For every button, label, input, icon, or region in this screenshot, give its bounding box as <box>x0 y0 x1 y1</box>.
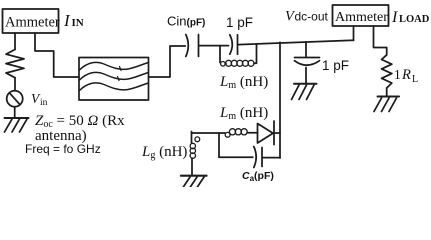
ground (Lg) <box>181 175 207 177</box>
ammeter box M2 (output) <box>333 5 389 26</box>
filter wavy line 2 <box>80 72 149 80</box>
capacitor 1pF shunt curved plate <box>295 61 320 65</box>
wire diode to vertical <box>274 132 280 134</box>
capacitor Cin straight plate <box>198 35 200 57</box>
capacitor Cin curved plate <box>186 35 189 57</box>
diode D1 <box>258 124 274 144</box>
wire M2 left lead to rail <box>353 26 355 40</box>
filter box (band-pass filter) <box>79 58 149 101</box>
wire source to ground <box>14 107 16 118</box>
ground (shunt cap) <box>294 83 317 85</box>
svg-text:Ca(pF): Ca(pF) <box>242 170 274 183</box>
node T junction to Ca loop <box>218 133 220 157</box>
wire M1 right lead to filter <box>35 33 79 77</box>
resistor RL <box>382 55 392 88</box>
svg-text:Freq = fo GHz: Freq = fo GHz <box>25 142 101 156</box>
wire top rail <box>238 40 354 44</box>
svg-text:Lg (nH): Lg (nH) <box>141 144 187 161</box>
wire Lg to ground <box>191 158 193 174</box>
capacitor 1pF shunt straight plate <box>295 57 320 59</box>
inductor Lm2 terminal circle <box>225 132 230 137</box>
inductor Lg coil <box>190 143 195 148</box>
filter wavy line 3 <box>80 83 149 91</box>
inductor Lm (tank) coil <box>224 63 227 65</box>
wire RL to ground <box>386 88 388 96</box>
filter wavy line 1 tick <box>120 67 122 71</box>
svg-text:IN: IN <box>72 17 84 29</box>
inductor Lm2 coil <box>229 129 235 135</box>
svg-text:I: I <box>391 9 398 26</box>
filter wavy line 1 <box>80 62 149 70</box>
wire Ca loop bottom left <box>219 156 253 158</box>
capacitor C 1pF series curved plate <box>230 35 233 54</box>
svg-text:I: I <box>63 11 71 30</box>
diode D1 cathode bar <box>273 121 275 145</box>
wire Lg top <box>191 132 193 144</box>
capacitor C 1pF series straight plate <box>237 35 239 54</box>
svg-text:Ammeter: Ammeter <box>335 10 388 25</box>
wire Cin to 1pF <box>199 45 229 47</box>
svg-text:R: R <box>401 67 411 83</box>
capacitor Ca curved plate <box>254 147 256 168</box>
wire M1 left lead <box>14 33 16 50</box>
wire resistor to source <box>14 78 16 91</box>
wire to Lm2 <box>219 132 225 134</box>
wire filter to Cin <box>149 46 186 77</box>
filter wavy line 2 tick <box>118 77 120 81</box>
capacitor Ca straight plate <box>261 148 263 167</box>
wire tank right vertical <box>256 45 258 63</box>
wire tank left vertical <box>219 46 221 63</box>
wire Lg corner to diode branch <box>192 132 220 134</box>
ground (source) <box>5 117 29 119</box>
svg-text:Lm (nH): Lm (nH) <box>219 105 268 122</box>
resistor (antenna source impedance) <box>6 50 24 78</box>
wire shunt cap stem top <box>305 42 307 57</box>
inductor Lm tank terminal circle <box>221 62 226 67</box>
wire diode branch vertical <box>279 42 281 158</box>
inductor Lg terminal circle <box>195 137 200 142</box>
source Vin (AC) circle <box>7 91 23 107</box>
svg-text:LOAD: LOAD <box>399 14 430 25</box>
svg-text:Ammeter: Ammeter <box>5 15 60 31</box>
svg-text:Cin: Cin <box>167 14 187 29</box>
ground (RL) <box>378 96 400 98</box>
wire Ca to vertical <box>263 157 281 159</box>
svg-text:dc-out: dc-out <box>295 10 329 24</box>
svg-text:(pF): (pF) <box>187 18 206 29</box>
svg-text:L: L <box>412 74 418 85</box>
svg-text:1 pF: 1 pF <box>226 15 253 30</box>
svg-text:1 pF: 1 pF <box>322 58 349 73</box>
svg-text:Lm (nH): Lm (nH) <box>219 74 268 91</box>
svg-text:1: 1 <box>394 67 401 82</box>
source diagonal stroke <box>10 94 19 104</box>
wire M2 right lead to RL <box>374 26 387 55</box>
wire shunt cap stem bottom <box>305 68 307 84</box>
ammeter box M1 (input) <box>3 9 59 33</box>
svg-text:in: in <box>40 98 48 108</box>
